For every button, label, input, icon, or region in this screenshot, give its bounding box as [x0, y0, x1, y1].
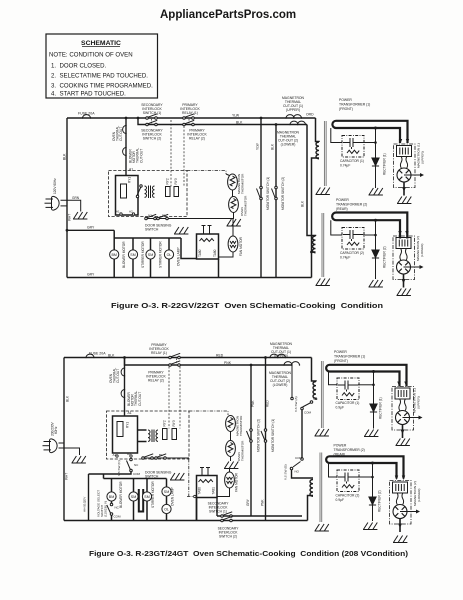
rectifier (2): [372, 250, 379, 258]
svg-text:2. SELECTATIME PAD TOUCHED.: 2. SELECTATIME PAD TOUCHED.: [51, 73, 148, 80]
svg-text:RECTIFIER (1): RECTIFIER (1): [379, 397, 383, 419]
secondary interlock line B: [217, 515, 302, 517]
secondary interlock switch (1) B: [221, 512, 233, 517]
wire HV tap to capacitor B1: [329, 372, 338, 385]
svg-text:YLW: YLW: [256, 143, 260, 150]
dash-dot wire to thermistors B: [189, 411, 228, 415]
wire rail2 BLK down to transformer2: [307, 125, 316, 237]
svg-text:FUSE 20A: FUSE 20A: [89, 352, 106, 356]
node HV junction 2: [374, 219, 377, 222]
svg-text:CUT-OUT: CUT-OUT: [116, 369, 120, 383]
motor bus wire B: [104, 474, 167, 521]
svg-text:(UPPER): (UPPER): [274, 354, 288, 358]
svg-text:MONITOR SWITCH (1): MONITOR SWITCH (1): [271, 419, 275, 452]
transformer2 filament loop B: [326, 456, 403, 478]
magnetron (1) ground: [397, 197, 411, 204]
svg-text:RY2: RY2: [163, 420, 167, 426]
svg-text:V.S SW (A): V.S SW (A): [294, 396, 298, 412]
svg-text:STIRRER MOTOR: STIRRER MOTOR: [141, 241, 145, 268]
transformer2 core: [322, 213, 324, 277]
wire top rail 1: [67, 117, 316, 119]
door switch chassis ground: [174, 227, 188, 234]
svg-text:RY3: RY3: [172, 420, 176, 426]
relay coil RY2 B: [163, 429, 168, 440]
fuse F 20A B: [85, 354, 94, 358]
svg-text:AH-51QEV: AH-51QEV: [83, 496, 87, 512]
svg-text:60Hz: 60Hz: [54, 426, 58, 434]
wire plug to line B: [59, 443, 80, 455]
wire HV tap to capacitor: [331, 128, 342, 143]
control unit dashed enclosure: [109, 171, 188, 217]
rectifier (1): [372, 158, 379, 166]
svg-text:GRY: GRY: [87, 226, 95, 230]
wire bottom rail: [67, 277, 312, 279]
svg-text:MONITOR SWITCH (2): MONITOR SWITCH (2): [257, 419, 261, 452]
secondary interlock switch (2) B: [221, 516, 233, 521]
relay coil RY3: [174, 187, 179, 197]
motor bus wire: [114, 230, 196, 277]
transformer2 primary coil B: [310, 480, 313, 497]
wire thermistor link B: [230, 432, 232, 441]
svg-text:PNK: PNK: [251, 400, 255, 407]
blower motor BM B: [107, 492, 116, 501]
control unit dashed enclosure B: [107, 411, 190, 459]
svg-text:STIRRER MOTOR: STIRRER MOTOR: [151, 481, 155, 508]
svg-text:SWITCH (2): SWITCH (2): [219, 535, 237, 539]
svg-text:CAPACITOR (2): CAPACITOR (2): [340, 251, 364, 255]
oven thermistor: [229, 197, 239, 213]
svg-text:POWER: POWER: [339, 98, 352, 102]
transformer1 core B: [321, 361, 323, 428]
wire thermistor to ground B: [230, 457, 232, 462]
monitor wire BLK: [275, 125, 277, 278]
svg-text:RECTIFIER (2): RECTIFIER (2): [378, 490, 382, 512]
node HV junction: [374, 127, 377, 130]
svg-text:GRY: GRY: [246, 498, 250, 506]
svg-text:RED: RED: [216, 354, 224, 358]
control transformer symbol B: [148, 430, 158, 443]
switch mechanical link dashes: [152, 119, 190, 124]
svg-text:CUT-OUT: CUT-OUT: [139, 149, 143, 163]
transformer1 core: [324, 121, 326, 186]
door sensing switch contact 1 B: [142, 454, 154, 459]
monitor wire RED B: [265, 358, 267, 521]
svg-text:COM: COM: [304, 411, 312, 415]
svg-text:PNK: PNK: [224, 361, 232, 365]
blower motor BM: [110, 250, 119, 259]
oven thermal cut-out vertical B: [124, 358, 126, 417]
svg-text:A1: A1: [113, 453, 117, 457]
plug 120V 60Hz: [45, 196, 60, 210]
control unit inner box B: [113, 416, 138, 453]
relay mechanical link dash B: [176, 359, 178, 365]
wire capacitor to rectifier node B2: [358, 476, 373, 478]
wire capacitor to rectifier node: [363, 142, 376, 144]
svg-text:120V 60Hz: 120V 60Hz: [53, 178, 57, 194]
wire transformer2 primary return: [312, 251, 316, 253]
dashed wire coil RY2 up B: [168, 367, 170, 429]
thermal fuse box TA80: [197, 234, 219, 259]
secondary interlock switch (1): [146, 114, 158, 119]
terminal A1 bottom B: [116, 455, 118, 457]
svg-text:OL: OL: [164, 508, 169, 512]
magnetron (2) ground: [397, 289, 411, 296]
svg-text:NO: NO: [295, 470, 300, 474]
transformer1 filament loop: [332, 121, 407, 143]
power transformer (1) label: [339, 98, 370, 111]
svg-text:RED: RED: [266, 400, 270, 407]
svg-text:COM: COM: [114, 515, 122, 519]
transformer1 core ground: [316, 188, 330, 195]
svg-text:MONITOR SWITCH (2): MONITOR SWITCH (2): [281, 177, 285, 210]
svg-text:AppliancePartsPros.com: AppliancePartsPros.com: [160, 9, 296, 21]
wire VS-B to transformer2 B: [292, 470, 314, 478]
svg-text:A1: A1: [116, 210, 120, 214]
door switch chassis ground B: [170, 473, 184, 480]
transformer1 core ground B: [315, 429, 329, 436]
svg-text:0.9μF: 0.9μF: [336, 406, 345, 410]
svg-text:OVEN LAMP: OVEN LAMP: [176, 247, 180, 266]
monitor wire YLW: [260, 118, 262, 278]
door sensing switch line B: [143, 457, 190, 459]
svg-text:COM: COM: [133, 472, 141, 476]
rectifier (1) ground B: [364, 430, 378, 437]
door sensing switch contact 2: [157, 214, 169, 219]
rectifier (2) B: [369, 497, 376, 505]
monitor wire PNK B: [250, 365, 252, 516]
V.S SW (A) switch: [291, 365, 313, 410]
transformer2 core ground B: [315, 524, 329, 531]
svg-text:NC: NC: [134, 463, 139, 467]
svg-text:BLK: BLK: [301, 200, 305, 207]
magnetron (2): [393, 231, 424, 288]
transformer1 filament loop B: [326, 365, 406, 387]
V.S SW (C) switch: [127, 458, 133, 472]
magnetron thermistor: [228, 174, 238, 190]
stirrer motor SM 2: [146, 250, 155, 259]
wire TA80 to bottom rail: [218, 259, 220, 278]
power transformer (2) label: [336, 198, 367, 211]
transformer2 filament loop: [332, 213, 407, 239]
thermistor ground: [227, 219, 241, 226]
magnetron thermal cut-out (2) B: [283, 362, 292, 366]
svg-text:MONITOR SWITCH (1): MONITOR SWITCH (1): [266, 177, 270, 210]
wire T2 return to bottom rail B: [308, 496, 314, 521]
svg-text:SM: SM: [130, 253, 135, 257]
svg-text:GRN: GRN: [72, 196, 80, 200]
svg-text:STIRRER MOTOR: STIRRER MOTOR: [158, 241, 162, 268]
dashed wire relay coil 2 to interlock relay: [183, 126, 185, 187]
node HV junction B2: [371, 462, 374, 465]
magnetron thermal cut-out (1) B: [269, 354, 278, 358]
svg-text:THERMISTOR: THERMISTOR: [244, 195, 248, 216]
stirrer motor SM 2 B: [142, 492, 151, 501]
terminal A1 bottom: [120, 213, 122, 215]
LV transformer rect B: [117, 422, 123, 437]
svg-text:FUSE 20A: FUSE 20A: [78, 112, 95, 116]
wire rail 2 branch B: [125, 358, 293, 366]
fuse F 20A: [82, 115, 91, 119]
power transformer (2) label B: [334, 444, 365, 457]
oven thermal cut-out vertical: [125, 118, 127, 176]
dash-dot wire to thermistors: [187, 171, 226, 175]
svg-text:GRY: GRY: [87, 273, 95, 277]
terminal circle TA80 left: [194, 495, 196, 497]
monitor switch (2): [272, 186, 278, 200]
capacitor (1) box B: [337, 378, 359, 400]
primary interlock relay (1) contacts B: [169, 353, 181, 358]
svg-text:TA80: TA80: [213, 249, 217, 257]
magnetron (1): [394, 139, 425, 196]
transformer1 primary coil: [316, 142, 319, 159]
svg-text:N2: N2: [148, 214, 152, 218]
svg-text:ORD: ORD: [306, 113, 314, 117]
note box: [46, 34, 158, 98]
magnetron (1) B: [392, 382, 423, 439]
wire transformer1 return B: [292, 397, 316, 400]
svg-text:FAN MOTOR: FAN MOTOR: [235, 472, 239, 492]
relay coil RY3 B: [172, 429, 177, 440]
svg-text:SM: SM: [148, 253, 153, 257]
power transformer (1) label B: [334, 350, 365, 363]
svg-text:OVEN LAMP: OVEN LAMP: [171, 487, 175, 506]
svg-text:TA80: TA80: [198, 249, 202, 257]
wire TA80 box to bottom rail B: [196, 498, 198, 521]
svg-text:TRANSFORMER (1): TRANSFORMER (1): [339, 103, 370, 107]
svg-text:B1: B1: [159, 453, 163, 457]
wire HV tap 2 to capacitor: [331, 220, 342, 235]
plug earth ground: [73, 212, 87, 219]
capacitor (1) box: [342, 136, 364, 158]
svg-text:FAN MOTOR: FAN MOTOR: [239, 236, 243, 256]
plug 200/230V 60Hz: [43, 439, 58, 453]
svg-text:SM: SM: [144, 495, 149, 499]
svg-text:(FRONT): (FRONT): [334, 359, 348, 363]
fan motor: [228, 236, 238, 252]
wire plug to line (GRN): [61, 200, 81, 211]
door sensing switch contact 2 B: [155, 454, 167, 459]
svg-text:BLK: BLK: [271, 143, 275, 150]
svg-text:CUT-OUT: CUT-OUT: [119, 127, 123, 141]
svg-text:(LOWER): (LOWER): [420, 244, 424, 257]
svg-text:NOTE: CONDITION OF OVEN: NOTE: CONDITION OF OVEN: [49, 52, 133, 59]
primary interlock relay (2) contacts B: [169, 361, 181, 366]
wire fan motor leads B: [218, 469, 230, 497]
svg-text:(UPPER): (UPPER): [416, 396, 420, 409]
wire bottom rail B: [64, 520, 308, 522]
magnetron thermal cut-out (1) on rail1: [285, 115, 294, 119]
wire thermistor to ground: [233, 213, 235, 220]
oven lamp OL: [164, 250, 173, 259]
magnetron (2) ground B: [393, 536, 407, 543]
dashed wire coil RY3 up B: [179, 367, 181, 429]
svg-text:WHT: WHT: [68, 214, 72, 221]
svg-text:(UPPER): (UPPER): [286, 108, 300, 112]
wire HV to rectifier B2: [372, 463, 374, 521]
svg-text:THERMISTOR: THERMISTOR: [241, 173, 245, 194]
svg-text:RY1: RY1: [128, 177, 132, 183]
svg-text:BLOWER MOTOR: BLOWER MOTOR: [122, 241, 126, 268]
svg-text:SWITCH (1): SWITCH (1): [209, 510, 227, 514]
transformer2 core ground: [316, 279, 330, 286]
svg-text:YLW: YLW: [232, 114, 240, 118]
magnetron (1) ground B: [396, 439, 410, 446]
voltage select switch label: [97, 490, 108, 517]
svg-text:(LOWER): (LOWER): [417, 489, 421, 502]
svg-text:RELAY (2): RELAY (2): [189, 137, 205, 141]
wire channel to transformer B: [138, 430, 147, 442]
svg-text:PNK: PNK: [261, 499, 265, 506]
svg-text:RECTIFIER (2): RECTIFIER (2): [383, 246, 387, 268]
wire GRY to control unit: [67, 229, 114, 231]
svg-text:BM: BM: [109, 495, 114, 499]
transformer2 primary coil: [313, 236, 316, 253]
wire COM line to motor box B: [89, 472, 132, 521]
magnetron thermistor B: [226, 416, 236, 432]
svg-text:BLOWER MOTOR: BLOWER MOTOR: [119, 481, 123, 508]
stirrer motor SM 1: [128, 250, 137, 259]
svg-text:COM: COM: [295, 456, 303, 460]
rectifier (2) ground: [369, 280, 383, 287]
V.S SW (B) switch: [290, 458, 303, 470]
control unit inner box: [116, 176, 139, 216]
node junctions B: [123, 356, 267, 366]
wire rail1 down to transformer1 B: [312, 358, 317, 382]
voltage select switch contacts: [107, 503, 113, 515]
wire HV to rectifier B1: [373, 372, 375, 429]
capacitor (2) box: [342, 228, 364, 250]
svg-text:SCHEMATIC: SCHEMATIC: [81, 40, 121, 47]
rectifier (1) ground: [369, 188, 383, 195]
svg-text:RECTIFIER (1): RECTIFIER (1): [383, 153, 387, 175]
svg-text:A2: A2: [127, 452, 131, 456]
wire HV tap to capacitor B2: [329, 463, 338, 477]
oven lamp OL B: [162, 504, 171, 513]
transformer1 primary coil B: [313, 382, 316, 399]
secondary interlock switch (2): [146, 120, 158, 125]
thermal fuse box TA80/TA81 B: [197, 476, 218, 498]
relay coil RY2: [166, 187, 171, 197]
svg-text:TA80: TA80: [198, 487, 202, 495]
rectifier (2) ground B: [363, 523, 377, 530]
primary interlock relay (2) contacts: [183, 120, 195, 125]
blower motor thermal cut-out vertical: [123, 147, 127, 156]
svg-text:A1: A1: [128, 411, 132, 415]
node GRY junction: [66, 229, 69, 232]
wire left vertical main B: [63, 358, 65, 521]
wire rail1 down to transformer1 primary: [316, 118, 320, 142]
capacitor (2) box B: [337, 470, 359, 492]
dash-dot wire to TA80 B: [187, 459, 194, 497]
stirrer motor SM 1 B: [129, 492, 138, 501]
svg-text:SM: SM: [131, 495, 136, 499]
wire top rail 1 B: [64, 357, 312, 359]
svg-text:0.74μF: 0.74μF: [340, 164, 350, 168]
plug earth ground B: [72, 456, 86, 463]
svg-text:(REAR): (REAR): [336, 207, 348, 211]
LV transformer rect: [121, 184, 127, 198]
wire capacitor 2 to rectifier node: [363, 234, 376, 236]
svg-text:POWER: POWER: [334, 350, 347, 354]
svg-text:1. DOOR CLOSED.: 1. DOOR CLOSED.: [51, 63, 107, 70]
node junctions rail1: [125, 117, 278, 126]
svg-text:BLK: BLK: [108, 354, 115, 358]
svg-text:RELAY (1): RELAY (1): [182, 111, 198, 115]
svg-text:(LOWER): (LOWER): [273, 383, 288, 387]
rectifier (1) B: [370, 404, 377, 412]
svg-text:Figure O-3. R-22GV/22GT Oven: Figure O-3. R-22GV/22GT Oven SChematic-C…: [111, 301, 384, 310]
svg-text:WHT: WHT: [65, 473, 69, 480]
svg-text:Figure O-3. R-23GT/24GT Oven: Figure O-3. R-23GT/24GT Oven SChematic-C…: [89, 549, 409, 558]
wire HV to rectifier: [375, 128, 377, 188]
terminal A2 bottom: [132, 213, 134, 215]
relay contact K1: [136, 185, 142, 198]
svg-text:SWITCH (1): SWITCH (1): [143, 111, 161, 115]
svg-text:BLK: BLK: [66, 395, 70, 402]
svg-text:TRANSFORMER (1): TRANSFORMER (1): [334, 355, 365, 359]
svg-text:TA81: TA81: [212, 487, 216, 495]
wire transformer1 primary return: [312, 158, 320, 278]
svg-text:TRANSFORMER (2): TRANSFORMER (2): [334, 448, 365, 452]
monitor switch (1) B: [261, 429, 267, 443]
svg-text:CAPACITOR (1): CAPACITOR (1): [340, 159, 364, 163]
svg-text:0.9μF: 0.9μF: [336, 498, 345, 502]
svg-text:THERMISTOR: THERMISTOR: [241, 440, 245, 461]
stirrer link thick wire: [139, 489, 143, 512]
wire thermistor link: [226, 174, 233, 197]
svg-text:(FRONT): (FRONT): [339, 107, 353, 111]
oven thermistor B: [226, 441, 236, 457]
svg-text:RY2: RY2: [166, 178, 170, 184]
wire VS-A to VS-B: [301, 410, 303, 458]
magnetron thermal cut-out (2) on rail2: [289, 121, 298, 125]
stirrer motor SM 3 B: [162, 487, 171, 496]
transformer2 core B: [320, 453, 322, 523]
svg-text:RY1: RY1: [126, 422, 130, 428]
wire left vertical main: [66, 118, 68, 278]
svg-text:4. START PAD TOUCHED.: 4. START PAD TOUCHED.: [51, 91, 126, 98]
svg-text:BLK: BLK: [63, 153, 67, 160]
svg-text:V.S SW (B): V.S SW (B): [284, 464, 288, 480]
svg-text:(LOWER): (LOWER): [281, 143, 296, 147]
svg-text:CAPACITOR (2): CAPACITOR (2): [336, 494, 360, 498]
svg-text:SM: SM: [164, 490, 169, 494]
svg-text:SWITCH (2): SWITCH (2): [143, 137, 161, 141]
wire fan motor leads: [219, 219, 233, 258]
wire HV 2 to rectifier: [375, 220, 377, 279]
node HV junction B1: [372, 370, 375, 373]
wire rail 2 branch: [138, 118, 307, 125]
svg-text:BM: BM: [112, 253, 117, 257]
svg-text:SWITCH: SWITCH: [145, 228, 159, 232]
svg-text:POWER: POWER: [334, 444, 347, 448]
svg-text:(115/230 V): (115/230 V): [104, 501, 108, 517]
terminal A2 bottom B: [130, 455, 132, 457]
primary interlock relay (1) contacts: [183, 114, 195, 119]
wire TA80 box to interlock line B: [216, 498, 218, 517]
fan motor B: [225, 472, 235, 488]
svg-text:TRANSFORMER (2): TRANSFORMER (2): [336, 203, 367, 207]
svg-text:CUT-OUT: CUT-OUT: [138, 392, 142, 406]
svg-text:A2: A2: [129, 210, 133, 214]
door sensing switch contact 1: [145, 214, 157, 219]
monitor switch (1): [257, 186, 263, 200]
blower motor thermal cut-out vertical B: [121, 389, 125, 398]
magnetron (2) B: [390, 476, 421, 533]
svg-text:RELAY (2): RELAY (2): [148, 379, 164, 383]
svg-text:BLK: BLK: [236, 121, 243, 125]
svg-text:3. COOKING TIME PROGRAMMED.: 3. COOKING TIME PROGRAMMED.: [51, 83, 153, 90]
